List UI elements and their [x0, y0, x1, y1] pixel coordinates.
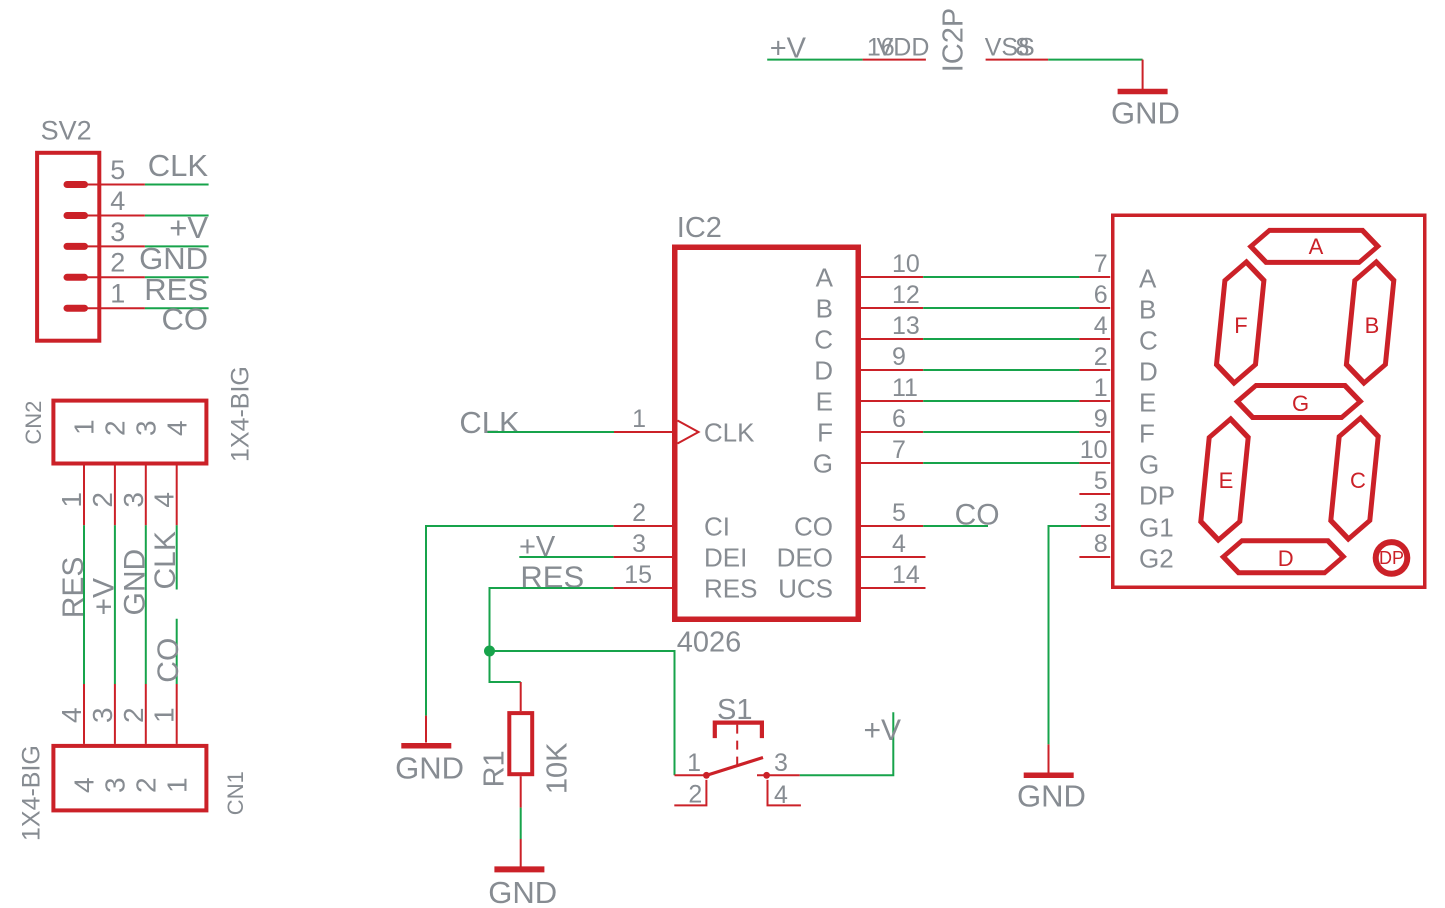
decimal point DP: [1376, 542, 1408, 574]
wire segment C: [923, 338, 1079, 340]
svg-text:F: F: [1234, 313, 1247, 338]
wire +V vertical: [114, 525, 116, 684]
IC2 pin 6 stub (F): [861, 431, 923, 433]
svg-text:D: D: [814, 356, 833, 386]
svg-text:C: C: [814, 325, 833, 355]
IC2 pin 11 stub (E): [861, 400, 923, 402]
CN2 pin 3 stub: [145, 466, 147, 526]
svg-text:5: 5: [892, 499, 906, 527]
svg-text:4: 4: [69, 777, 100, 793]
svg-text:E: E: [1139, 387, 1156, 417]
switch S1 actuator: [715, 723, 762, 739]
svg-text:+V: +V: [169, 210, 208, 245]
svg-text:1: 1: [56, 492, 87, 508]
svg-text:E: E: [1219, 468, 1234, 493]
wire CO vertical: [176, 619, 178, 684]
svg-text:G: G: [1292, 391, 1309, 416]
svg-text:A: A: [1309, 234, 1324, 259]
wire segment G: [923, 462, 1079, 464]
svg-text:SV2: SV2: [41, 116, 92, 146]
CN1 pin 2 stub: [145, 684, 147, 744]
svg-text:RES: RES: [704, 574, 757, 604]
SV2 pin 3 stub: [85, 245, 145, 247]
svg-text:8: 8: [1094, 530, 1108, 558]
segment E: [1199, 419, 1250, 540]
display pin 10 stub (G): [1079, 462, 1110, 464]
svg-text:11: 11: [892, 374, 918, 402]
segment B: [1345, 262, 1396, 383]
display pin 8 stub (G2): [1079, 556, 1110, 558]
R1 bottom pin stub: [520, 776, 522, 807]
wire CO out: [923, 525, 988, 527]
svg-text:4026: 4026: [677, 627, 742, 659]
svg-text:RES: RES: [57, 557, 90, 619]
svg-text:2: 2: [110, 248, 125, 278]
svg-text:10: 10: [1080, 436, 1108, 464]
wire RES to pin 15: [490, 588, 614, 651]
svg-text:F: F: [1139, 418, 1155, 448]
segment D: [1222, 541, 1345, 573]
svg-text:A: A: [1139, 263, 1157, 293]
SV2 pin 1 stub: [85, 307, 145, 309]
IC2 pin 14 stub (UCS): [861, 587, 926, 589]
ground GND (top right): [1111, 60, 1180, 131]
IC2 pin 3 stub: [614, 556, 672, 558]
svg-text:5: 5: [110, 155, 125, 185]
wire switch to +V: [800, 712, 894, 775]
svg-text:+V: +V: [519, 531, 556, 563]
svg-text:GND: GND: [488, 875, 557, 908]
svg-text:C: C: [1350, 468, 1366, 493]
wire GND vertical: [145, 525, 147, 684]
svg-text:4: 4: [149, 492, 180, 508]
ground GND (below R1): [488, 839, 557, 908]
svg-text:1X4-BIG: 1X4-BIG: [18, 745, 46, 841]
svg-text:15: 15: [624, 561, 652, 589]
wire segment E: [923, 400, 1079, 402]
connector SV2 pads: [67, 185, 85, 309]
svg-text:GND: GND: [1111, 96, 1180, 131]
IC2 pin 10 stub (A): [861, 276, 923, 278]
display pin 2 stub (D): [1079, 369, 1110, 371]
IC U1 (IC2) body: [675, 247, 859, 619]
svg-text:4: 4: [1094, 312, 1108, 340]
svg-text:10: 10: [892, 250, 920, 278]
svg-text:GND: GND: [139, 241, 208, 276]
CN1 pin 3 stub: [114, 684, 116, 744]
svg-text:B: B: [1139, 294, 1156, 324]
display pin 3 stub (G1): [1081, 525, 1110, 527]
wire CLK from SV2 pin 5: [145, 184, 209, 186]
IC2P pin 16 stub (VDD): [863, 59, 926, 61]
CN2 pin 1 stub: [83, 466, 85, 526]
svg-text:CLK: CLK: [148, 148, 209, 183]
display pin 9 stub (F): [1079, 431, 1110, 433]
svg-text:7: 7: [1094, 250, 1108, 278]
SV2 pin 2 stub: [85, 276, 145, 278]
switch S1 pin 4 stub: [768, 780, 801, 806]
switch S1 pin 1 contact: [703, 772, 710, 779]
wire VSS to GND: [1048, 59, 1142, 61]
svg-text:6: 6: [1094, 281, 1108, 309]
svg-text:G2: G2: [1139, 543, 1174, 573]
svg-text:1: 1: [149, 707, 180, 723]
switch S1 pin 3 stub: [757, 774, 800, 776]
svg-text:3: 3: [774, 749, 788, 777]
svg-text:3: 3: [632, 530, 646, 558]
svg-text:3: 3: [87, 707, 118, 723]
IC2 pin 1 stub: [614, 431, 672, 433]
display DIS1 body: [1113, 215, 1425, 587]
IC2 pin 2 stub: [614, 525, 672, 527]
SV2 pin 5 stub: [85, 184, 145, 186]
svg-text:1: 1: [632, 405, 646, 433]
wire +V to DEI: [519, 556, 613, 558]
svg-text:IC2P: IC2P: [937, 8, 969, 72]
svg-text:4: 4: [161, 420, 192, 436]
SV2 pin 4 stub: [85, 215, 145, 217]
svg-text:F: F: [817, 418, 833, 448]
svg-text:3: 3: [131, 420, 162, 436]
svg-text:E: E: [816, 387, 833, 417]
IC2 clock triangle: [678, 421, 699, 444]
CN2 pin 4 stub: [176, 466, 178, 526]
switch S1 lever: [706, 758, 763, 776]
R1 top pin stub: [520, 682, 522, 711]
svg-text:R1: R1: [479, 750, 511, 787]
svg-text:2: 2: [118, 707, 149, 723]
wire segment D: [923, 369, 1079, 371]
svg-text:CO: CO: [794, 512, 833, 542]
svg-text:8: 8: [1016, 33, 1030, 61]
svg-text:1X4-BIG: 1X4-BIG: [227, 366, 255, 462]
svg-text:1: 1: [110, 279, 125, 309]
svg-text:CO: CO: [152, 638, 185, 683]
svg-text:2: 2: [131, 777, 162, 793]
svg-text:5: 5: [1094, 467, 1108, 495]
IC2 pin 9 stub (D): [861, 369, 923, 371]
IC2 pin 12 stub (B): [861, 307, 923, 309]
display pin 7 stub (A): [1079, 276, 1110, 278]
svg-text:12: 12: [892, 281, 920, 309]
segment F: [1215, 262, 1266, 383]
wire segment F: [923, 431, 1079, 433]
connector SV2 body: [37, 153, 99, 341]
IC2 pin 13 stub (C): [861, 338, 923, 340]
svg-text:1: 1: [161, 777, 192, 793]
segment A: [1249, 230, 1379, 262]
svg-text:CLK: CLK: [149, 531, 182, 589]
svg-text:CLK: CLK: [704, 418, 755, 448]
switch S1 pin 1 stub: [675, 774, 707, 776]
svg-text:G: G: [813, 449, 833, 479]
wire junction to switch: [490, 651, 675, 775]
svg-text:9: 9: [1094, 405, 1108, 433]
ground GND (left, CI): [395, 716, 464, 786]
svg-text:3: 3: [110, 217, 125, 247]
svg-text:6: 6: [892, 405, 906, 433]
wire RES from SV2 pin 2: [145, 276, 209, 278]
display pin 6 stub (B): [1079, 307, 1110, 309]
svg-text:CI: CI: [704, 512, 730, 542]
switch S1 dashed link: [736, 725, 738, 768]
svg-text:RES: RES: [520, 560, 584, 595]
wire CO from SV2 pin 1: [145, 307, 209, 309]
CN1 pin 4 stub: [83, 684, 85, 744]
svg-text:CN2: CN2: [21, 401, 46, 445]
CN1 pin 1 stub: [176, 684, 178, 744]
svg-text:10K: 10K: [542, 742, 574, 794]
switch S1 pin 2 stub: [674, 780, 706, 806]
CN2 pin 2 stub: [114, 466, 116, 526]
svg-text:1: 1: [687, 749, 701, 777]
svg-text:3: 3: [1094, 499, 1108, 527]
svg-text:1: 1: [69, 419, 100, 435]
svg-text:DP: DP: [1379, 548, 1404, 568]
wire junction to R1: [490, 651, 521, 682]
IC2 pin 15 stub: [614, 587, 672, 589]
display pin 1 stub (E): [1079, 400, 1110, 402]
wire +V from SV2 pin 4: [145, 215, 209, 217]
svg-text:C: C: [1139, 325, 1158, 355]
svg-text:D: D: [1278, 546, 1294, 571]
svg-text:UCS: UCS: [778, 574, 833, 604]
svg-text:2: 2: [688, 781, 702, 809]
svg-text:4: 4: [110, 186, 125, 216]
connector CN2 body: [53, 401, 206, 464]
svg-text:GND: GND: [395, 750, 464, 785]
svg-text:2: 2: [100, 420, 131, 436]
svg-text:DEO: DEO: [777, 543, 833, 573]
wire +V to IC2P VDD: [767, 59, 862, 61]
IC2 pin 7 stub (G): [861, 462, 923, 464]
ground GND (display common): [1017, 744, 1086, 813]
svg-text:3: 3: [100, 777, 131, 793]
IC2P pin 8 stub (VSS): [986, 59, 1049, 61]
IC2 pin 5 stub (CO): [861, 525, 923, 527]
display pin 5 stub (DP): [1079, 493, 1110, 495]
wire CLK to IC2: [488, 431, 615, 433]
wire GND from SV2 pin 3: [145, 245, 209, 247]
connector CN1 body: [53, 746, 206, 811]
svg-text:CO: CO: [162, 301, 209, 336]
svg-text:B: B: [816, 294, 833, 324]
svg-text:GND: GND: [119, 549, 152, 616]
seven segment digit: [1196, 230, 1399, 572]
wire CLK vertical: [176, 525, 178, 589]
svg-text:1: 1: [1094, 374, 1108, 402]
svg-text:CO: CO: [955, 499, 1000, 532]
svg-text:GND: GND: [1017, 779, 1086, 814]
svg-text:2: 2: [632, 499, 646, 527]
resistor R1 body: [509, 713, 532, 774]
svg-text:G1: G1: [1139, 512, 1174, 542]
svg-text:CN1: CN1: [223, 771, 248, 815]
svg-text:14: 14: [892, 561, 920, 589]
svg-text:A: A: [816, 263, 834, 293]
svg-text:7: 7: [892, 436, 906, 464]
svg-text:CLK: CLK: [459, 405, 520, 440]
svg-text:2: 2: [1094, 343, 1108, 371]
svg-text:DEI: DEI: [704, 543, 747, 573]
svg-text:+V: +V: [863, 714, 901, 747]
svg-text:4: 4: [56, 707, 87, 723]
svg-text:VDD: VDD: [877, 33, 930, 61]
wire R1 to ground: [520, 808, 522, 839]
wire RES vertical: [83, 525, 85, 684]
wire segment B: [923, 307, 1079, 309]
svg-text:3: 3: [118, 492, 149, 508]
wire CI to ground: [426, 526, 614, 716]
segment G: [1236, 386, 1362, 418]
IC2 pin 4 stub (DEO): [861, 556, 926, 558]
wire G1 to ground: [1049, 526, 1082, 744]
svg-text:G: G: [1139, 449, 1159, 479]
display pin 4 stub (C): [1079, 338, 1110, 340]
svg-text:D: D: [1139, 356, 1158, 386]
svg-text:DP: DP: [1139, 480, 1175, 510]
wire segment A: [923, 276, 1079, 278]
segment C: [1329, 418, 1380, 539]
svg-text:2: 2: [87, 492, 118, 508]
svg-text:9: 9: [892, 343, 906, 371]
switch S1 pin 3 contact: [763, 772, 770, 779]
svg-text:IC2: IC2: [677, 212, 722, 244]
svg-text:B: B: [1365, 313, 1380, 338]
svg-text:4: 4: [892, 530, 906, 558]
svg-text:13: 13: [892, 312, 920, 340]
node junction (RES net): [484, 646, 495, 657]
svg-text:+V: +V: [88, 578, 121, 616]
